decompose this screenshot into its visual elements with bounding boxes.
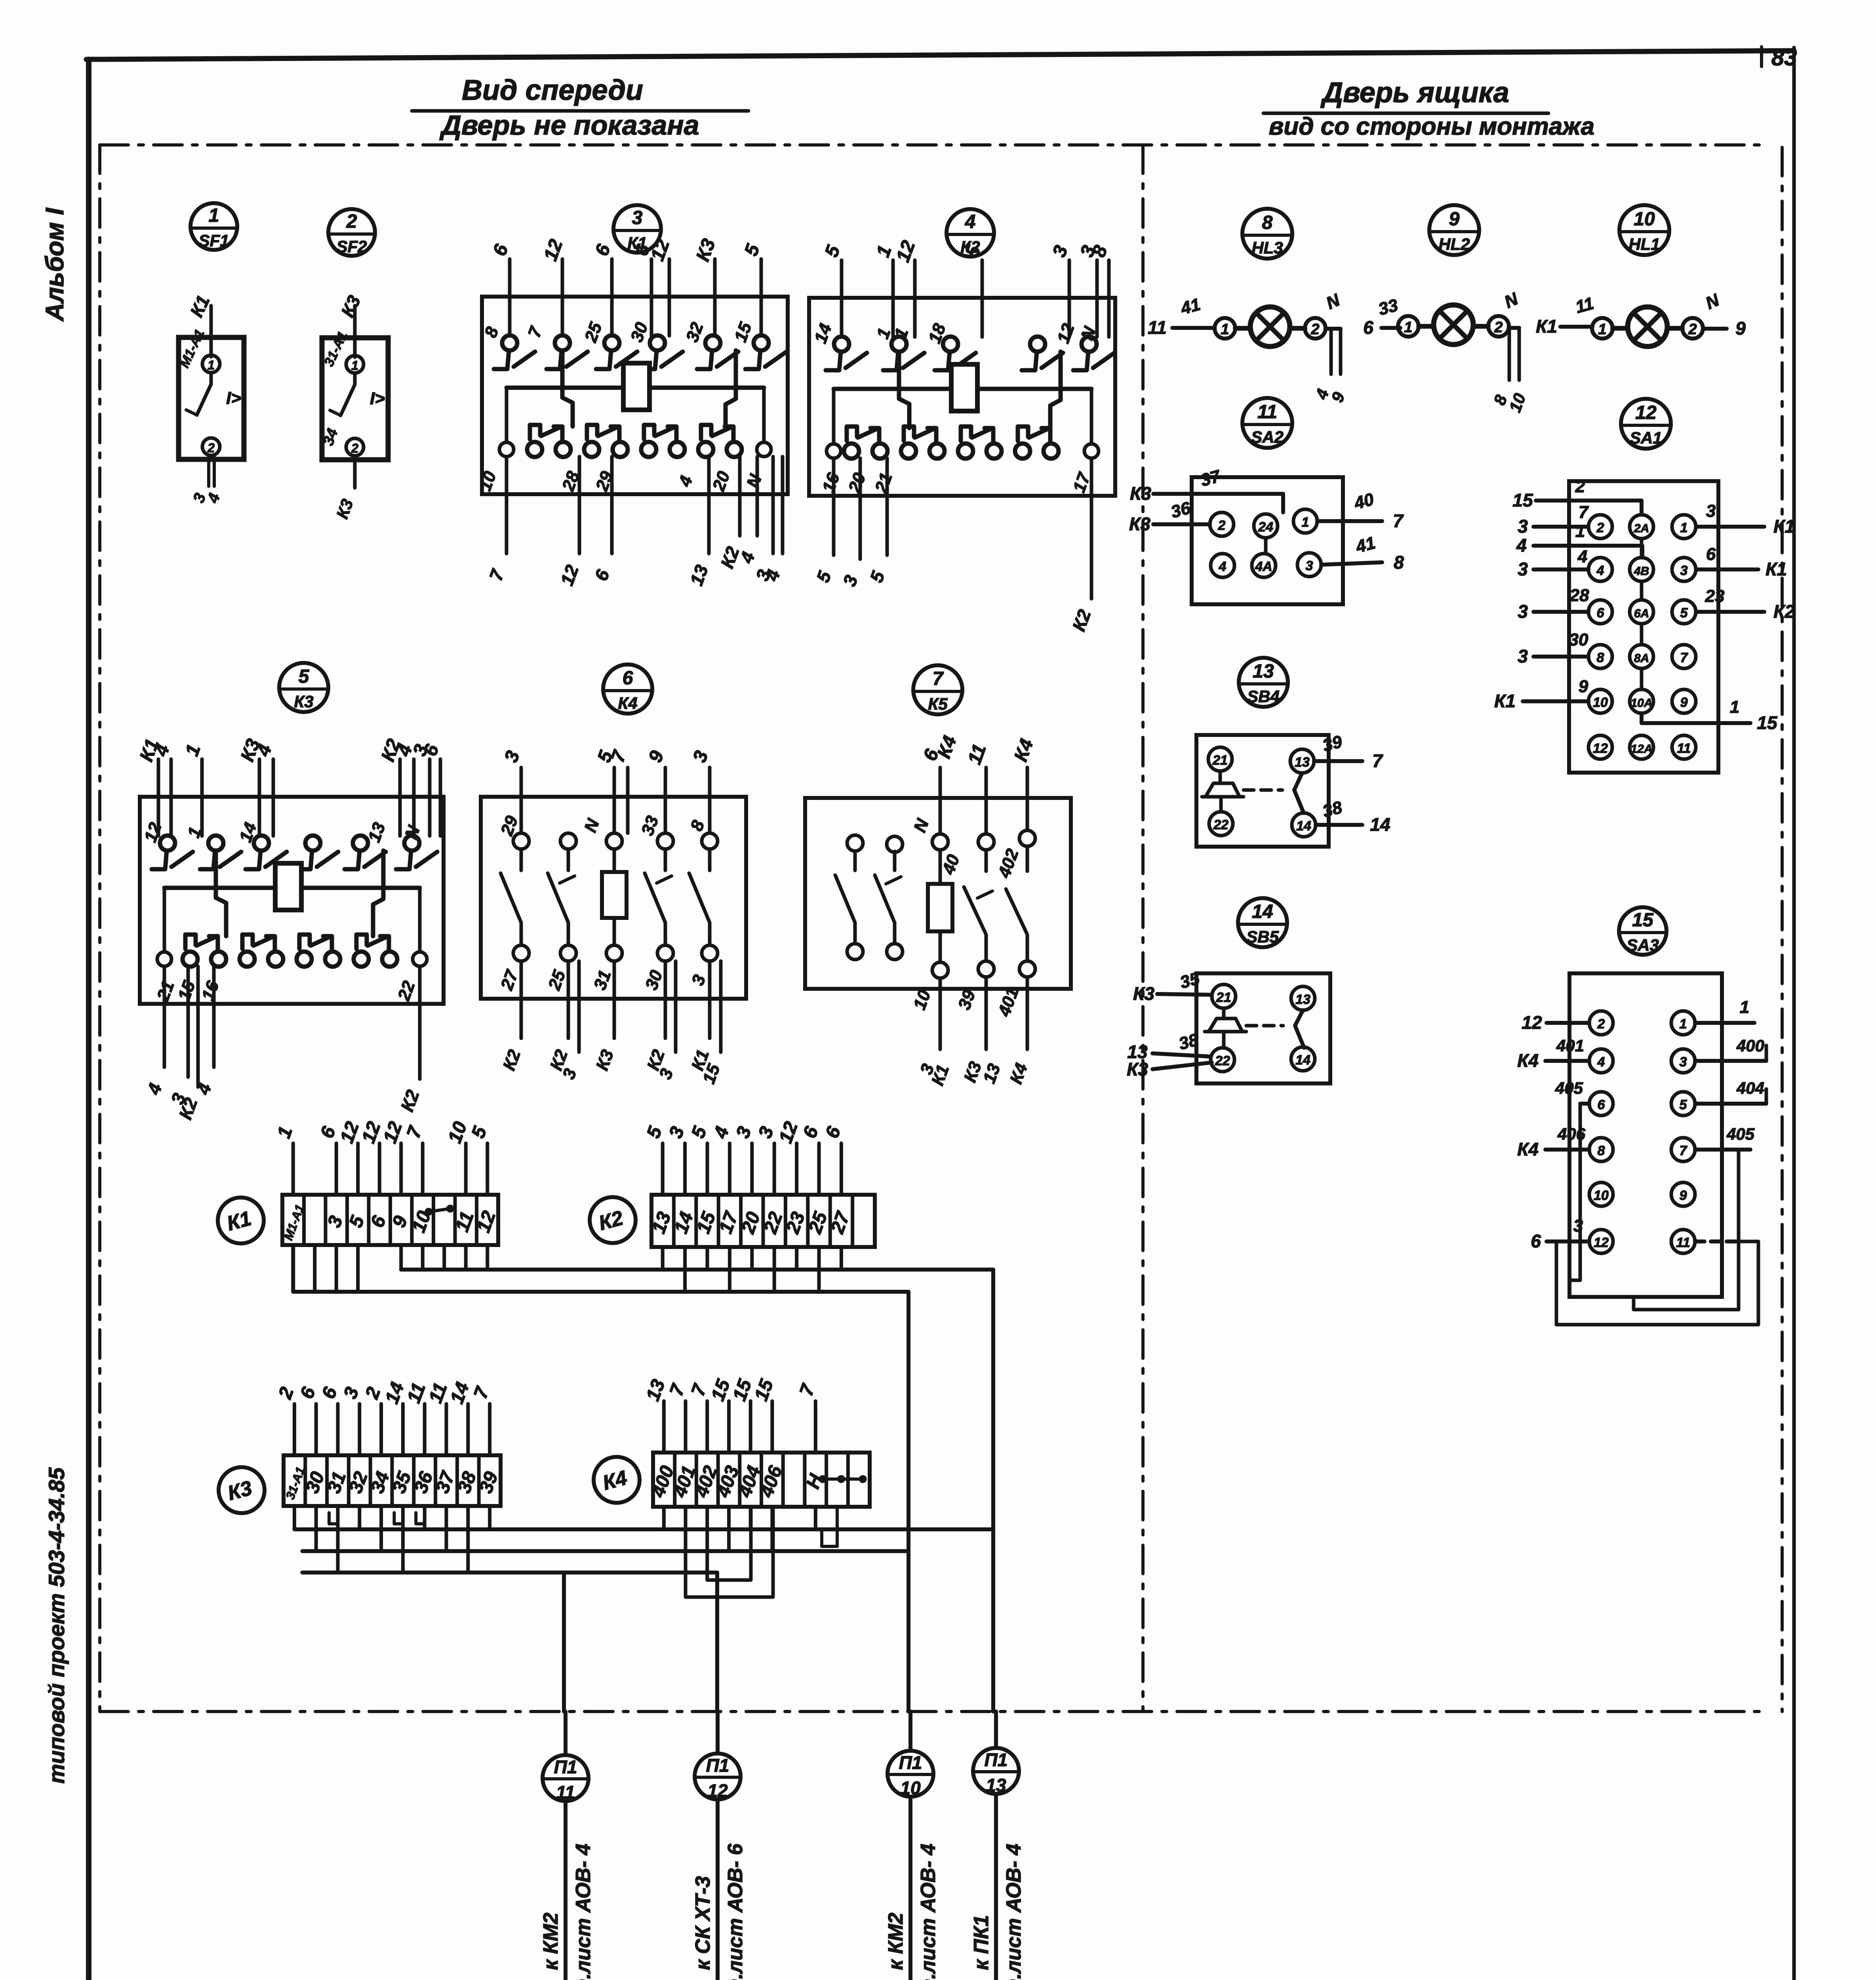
svg-text:3: 3 — [1680, 563, 1688, 578]
svg-text:I>: I> — [226, 388, 241, 408]
svg-text:К3: К3 — [1127, 1059, 1148, 1079]
svg-text:15: 15 — [1632, 910, 1654, 931]
terminal strip K2 top leads — [661, 1143, 665, 1195]
svg-text:3: 3 — [1518, 646, 1528, 666]
svg-text:5: 5 — [1680, 1097, 1687, 1112]
svg-text:1: 1 — [351, 358, 358, 373]
svg-text:12А: 12А — [1630, 742, 1652, 756]
sheet frame — [86, 59, 91, 1980]
svg-text:7: 7 — [1372, 750, 1383, 771]
svg-text:2: 2 — [1310, 321, 1319, 338]
relay K4 bottom leads — [520, 961, 523, 1038]
connector P1/12 — [716, 1712, 720, 1753]
relay K3 top contacts — [160, 836, 175, 851]
svg-text:К5: К5 — [928, 695, 948, 713]
breaker SF1 — [179, 337, 244, 459]
svg-text:П1: П1 — [706, 1755, 729, 1776]
svg-text:SF1: SF1 — [198, 231, 229, 250]
lamp HL3 — [1172, 326, 1214, 330]
relay K1 top leads — [508, 259, 512, 336]
svg-text:4: 4 — [1596, 563, 1604, 578]
svg-text:11: 11 — [1677, 741, 1691, 756]
relay K5 switches — [847, 835, 863, 851]
terminal strip K3 marker — [219, 1467, 265, 1513]
svg-text:12: 12 — [1593, 741, 1608, 756]
svg-text:4А: 4А — [1255, 559, 1272, 574]
svg-text:1: 1 — [1302, 515, 1309, 530]
svg-text:12: 12 — [1635, 402, 1657, 423]
svg-text:5: 5 — [299, 666, 310, 687]
svg-text:7: 7 — [1579, 503, 1589, 522]
relay K3 top leads — [157, 759, 160, 836]
button SB4 actuator — [1219, 771, 1222, 782]
button SB4 marker — [1239, 658, 1288, 707]
svg-text:Альбом I: Альбом I — [40, 208, 69, 322]
svg-text:3: 3 — [1306, 558, 1313, 573]
switch SA1 middle chain — [1640, 539, 1644, 558]
svg-text:2: 2 — [1494, 319, 1503, 336]
svg-text:ст.лист АОВ- 6: ст.лист АОВ- 6 — [724, 1843, 747, 1980]
svg-text:10: 10 — [1634, 209, 1655, 230]
svg-text:24: 24 — [1258, 520, 1273, 535]
section border right — [1781, 147, 1784, 1712]
relay K5 — [805, 798, 1071, 989]
svg-text:405: 405 — [1726, 1125, 1755, 1143]
svg-text:6: 6 — [1598, 1097, 1606, 1112]
terminal strip K4 marker — [594, 1457, 640, 1503]
svg-text:1: 1 — [208, 358, 215, 372]
svg-text:4: 4 — [1516, 535, 1527, 556]
switch SA1 — [1569, 481, 1718, 773]
svg-text:22: 22 — [1215, 1053, 1230, 1068]
loop wires under strip K4 — [686, 1507, 773, 1597]
svg-text:405: 405 — [1555, 1079, 1583, 1097]
svg-text:SA3: SA3 — [1627, 936, 1659, 954]
relay K4 — [481, 797, 746, 999]
svg-text:HL1: HL1 — [1628, 235, 1660, 253]
svg-text:2: 2 — [1596, 520, 1604, 535]
button SB5 wires — [1157, 994, 1212, 995]
relay K2 inner wires — [899, 352, 909, 428]
svg-text:2: 2 — [207, 441, 215, 455]
relay K3 coil — [164, 886, 274, 890]
svg-text:К3: К3 — [1133, 983, 1154, 1004]
svg-text:1: 1 — [1575, 522, 1585, 541]
switch SA3 left wires — [1547, 1021, 1589, 1025]
relay K1 inner wires — [562, 350, 573, 426]
relay K2 top contacts — [834, 337, 849, 352]
svg-text:к КМ2: к КМ2 — [539, 1913, 562, 1970]
svg-text:7: 7 — [1393, 510, 1404, 531]
relay K5 leads — [939, 767, 942, 834]
svg-text:1: 1 — [1598, 321, 1606, 338]
button SB5 — [1196, 973, 1330, 1083]
svg-text:9: 9 — [1680, 1188, 1687, 1203]
svg-text:11: 11 — [1148, 317, 1167, 338]
svg-text:2: 2 — [1597, 1017, 1605, 1032]
relay K2 marker — [947, 209, 994, 257]
svg-text:1: 1 — [1404, 319, 1412, 336]
svg-text:22: 22 — [1213, 817, 1228, 832]
breaker SF2 marker — [328, 209, 375, 256]
svg-text:К4: К4 — [1517, 1050, 1539, 1071]
svg-text:8: 8 — [1597, 650, 1604, 665]
svg-text:4: 4 — [1597, 1055, 1605, 1070]
svg-text:8: 8 — [1262, 212, 1273, 233]
svg-text:SA1: SA1 — [1630, 428, 1662, 447]
terminal strip K3 top leads — [293, 1404, 296, 1455]
svg-text:10: 10 — [1594, 1188, 1609, 1203]
section border bottom — [100, 1710, 1766, 1713]
lamp HL2 — [1381, 326, 1400, 330]
terminal strip K1 marker — [218, 1198, 264, 1243]
svg-text:9: 9 — [1579, 677, 1588, 696]
relay K4 top leads — [520, 767, 523, 833]
svg-text:11: 11 — [1676, 1235, 1690, 1250]
svg-text:К3: К3 — [1130, 483, 1151, 504]
svg-text:23: 23 — [1705, 586, 1725, 606]
svg-text:13: 13 — [1253, 661, 1274, 682]
button SB5 marker — [1238, 898, 1287, 947]
relay K3 — [140, 797, 444, 1004]
section border left — [98, 145, 101, 1712]
svg-text:SB4: SB4 — [1247, 687, 1280, 706]
svg-text:П1: П1 — [985, 1750, 1008, 1770]
svg-text:14: 14 — [1370, 814, 1390, 835]
svg-text:2А: 2А — [1634, 522, 1649, 535]
breaker SF2 — [322, 338, 388, 460]
section border top — [100, 143, 1766, 147]
svg-text:1: 1 — [1680, 520, 1688, 535]
svg-text:10: 10 — [1593, 695, 1608, 710]
relay K2 bottom contacts — [844, 444, 859, 459]
svg-text:3: 3 — [1518, 601, 1528, 622]
bus line 2 — [293, 1292, 908, 1712]
terminal strip K2 marker — [590, 1197, 636, 1243]
switch SA3 loop wires — [1569, 1104, 1580, 1280]
svg-text:К1: К1 — [1773, 516, 1795, 537]
svg-text:Вид спереди: Вид спереди — [462, 74, 643, 106]
svg-text:21: 21 — [1216, 990, 1231, 1005]
svg-text:4В: 4В — [1634, 565, 1649, 578]
svg-text:К4: К4 — [618, 694, 637, 712]
svg-text:401: 401 — [1556, 1036, 1584, 1055]
svg-text:400: 400 — [1736, 1036, 1764, 1055]
svg-text:9: 9 — [1449, 209, 1460, 230]
switch SA3 — [1569, 973, 1722, 1297]
svg-text:3: 3 — [1680, 1055, 1687, 1070]
svg-text:2: 2 — [351, 441, 358, 455]
switch SA1 marker — [1621, 399, 1671, 449]
lamp HL3 marker — [1242, 209, 1292, 259]
switch SA3 right wires — [1695, 1021, 1754, 1025]
svg-text:к СК ХТ-3: к СК ХТ-3 — [691, 1876, 714, 1970]
switch SA2 wires — [1153, 494, 1283, 512]
svg-text:6: 6 — [1706, 544, 1716, 564]
svg-text:3: 3 — [1706, 501, 1716, 521]
svg-text:9: 9 — [1680, 695, 1688, 710]
svg-text:8: 8 — [1394, 552, 1404, 573]
svg-text:21: 21 — [1212, 753, 1228, 768]
svg-text:к ПК1: к ПК1 — [970, 1915, 993, 1970]
connector P1/11 — [564, 1712, 568, 1755]
svg-text:10А: 10А — [1630, 697, 1652, 710]
svg-text:2: 2 — [1688, 321, 1697, 338]
svg-text:9: 9 — [1735, 318, 1746, 339]
svg-text:2: 2 — [1218, 518, 1226, 533]
relay K3 bottom contacts — [183, 952, 198, 967]
relay K1 marker — [613, 205, 661, 253]
svg-text:2: 2 — [346, 211, 357, 232]
section border middle divider — [1141, 145, 1145, 1712]
svg-text:SF2: SF2 — [336, 237, 367, 256]
svg-text:К3: К3 — [294, 692, 313, 711]
button SB4 — [1196, 735, 1329, 847]
svg-text:Дверь не показана: Дверь не показана — [439, 110, 699, 141]
svg-text:П1: П1 — [554, 1757, 577, 1777]
svg-text:К3: К3 — [1129, 514, 1150, 534]
svg-text:К4: К4 — [1517, 1139, 1539, 1159]
svg-text:12: 12 — [1594, 1235, 1609, 1250]
svg-text:I>: I> — [370, 389, 385, 408]
lamp HL1 marker — [1619, 205, 1669, 255]
svg-text:4: 4 — [1577, 547, 1587, 566]
bus line 4 — [302, 1549, 908, 1553]
svg-text:6: 6 — [1531, 1231, 1541, 1251]
switch SA1 right wires — [1696, 525, 1764, 529]
svg-text:15: 15 — [1757, 712, 1778, 733]
svg-text:7: 7 — [933, 668, 944, 689]
svg-text:1: 1 — [1680, 1017, 1687, 1032]
relay K2 top leads — [840, 260, 844, 337]
svg-text:К1: К1 — [1766, 559, 1787, 579]
switch SA2 — [1192, 477, 1343, 604]
connector P1/13 — [994, 1712, 998, 1748]
relay K1 bottom contacts — [527, 442, 542, 457]
svg-text:3: 3 — [632, 208, 643, 228]
svg-text:2: 2 — [1575, 477, 1585, 496]
svg-text:SA2: SA2 — [1251, 428, 1284, 446]
button SB5 actuator — [1222, 1008, 1226, 1017]
terminal strip K2 — [651, 1195, 875, 1247]
svg-text:4: 4 — [965, 211, 976, 232]
terminal strip K4 top leads — [662, 1401, 666, 1453]
svg-text:П1: П1 — [899, 1752, 922, 1773]
svg-text:8А: 8А — [1634, 652, 1649, 665]
svg-text:11: 11 — [1257, 402, 1277, 423]
svg-text:вид со стороны монтажа: вид со стороны монтажа — [1269, 113, 1594, 140]
lamp HL1 — [1560, 325, 1592, 329]
bus line 3 — [294, 1527, 993, 1531]
svg-text:83: 83 — [1771, 45, 1797, 70]
relay K3 inner wires — [216, 851, 226, 936]
svg-text:8: 8 — [1598, 1143, 1605, 1158]
svg-text:13: 13 — [1295, 992, 1310, 1007]
svg-text:7: 7 — [1680, 650, 1689, 665]
bus line 1 — [401, 1270, 993, 1712]
switch SA1 left wires — [1536, 501, 1642, 515]
bus line 5 — [302, 1573, 717, 1712]
bus wires under strips — [313, 1245, 316, 1292]
svg-text:6: 6 — [1363, 317, 1373, 338]
relay K4 marker — [603, 664, 652, 714]
relay K1 top contacts — [502, 335, 517, 350]
svg-text:30: 30 — [1569, 630, 1588, 649]
terminal strip K1 — [282, 1195, 498, 1245]
svg-text:к КМ2: к КМ2 — [884, 1913, 907, 1970]
button SB4 wires — [1314, 759, 1362, 763]
svg-text:К2: К2 — [1773, 601, 1795, 622]
svg-text:14: 14 — [1295, 1053, 1310, 1068]
relay K1 — [482, 297, 788, 494]
relay K4 switches — [513, 833, 529, 849]
svg-text:ст.лист АОВ- 4: ст.лист АОВ- 4 — [917, 1844, 940, 1980]
svg-text:1: 1 — [1221, 321, 1229, 338]
svg-text:14: 14 — [1296, 819, 1311, 834]
relay K2 coil — [834, 387, 950, 391]
svg-text:ст.лист АОВ- 4: ст.лист АОВ- 4 — [1002, 1844, 1025, 1980]
svg-text:HL3: HL3 — [1251, 238, 1283, 257]
terminal strip K4 — [653, 1453, 870, 1507]
svg-text:К1: К1 — [1536, 316, 1557, 337]
svg-text:7: 7 — [1680, 1143, 1688, 1158]
svg-text:3: 3 — [1518, 516, 1528, 537]
svg-text:12: 12 — [1522, 1012, 1542, 1033]
wire to P1-11 — [562, 1573, 566, 1712]
svg-text:1: 1 — [1740, 998, 1749, 1017]
svg-text:ст.лист АОВ- 4: ст.лист АОВ- 4 — [572, 1844, 595, 1980]
svg-text:1: 1 — [209, 205, 219, 226]
switch SA2 marker — [1242, 398, 1292, 448]
svg-text:6: 6 — [623, 668, 633, 689]
svg-text:1: 1 — [1730, 697, 1739, 717]
switch SA3 marker — [1619, 907, 1666, 955]
svg-text:3: 3 — [1518, 559, 1528, 579]
svg-text:6: 6 — [1597, 605, 1605, 621]
relay K1 coil — [507, 386, 623, 390]
svg-text:4: 4 — [1219, 559, 1227, 574]
svg-text:К1: К1 — [1494, 691, 1516, 711]
svg-text:типовой проект 503-4-34.85: типовой проект 503-4-34.85 — [44, 1467, 69, 1784]
svg-text:Дверь ящика: Дверь ящика — [1320, 77, 1509, 109]
svg-text:6А: 6А — [1634, 607, 1649, 620]
connector P1/10 — [908, 1712, 912, 1751]
svg-text:15: 15 — [1512, 490, 1533, 510]
svg-text:14: 14 — [1252, 901, 1273, 922]
page number 83 — [1760, 47, 1763, 67]
relay K2 — [809, 298, 1115, 496]
svg-text:SB5: SB5 — [1246, 927, 1279, 946]
breaker SF1 marker — [190, 203, 237, 250]
relay K3 marker — [279, 663, 328, 712]
lamp HL2 marker — [1429, 205, 1479, 255]
relay K5 marker — [913, 665, 962, 714]
terminal strip K3 — [284, 1455, 501, 1506]
svg-text:28: 28 — [1569, 586, 1589, 605]
svg-text:404: 404 — [1736, 1079, 1764, 1097]
terminal strip K1 top leads — [291, 1143, 295, 1195]
svg-text:5: 5 — [1680, 605, 1688, 621]
svg-text:13: 13 — [1295, 755, 1310, 770]
svg-text:HL2: HL2 — [1438, 235, 1470, 253]
